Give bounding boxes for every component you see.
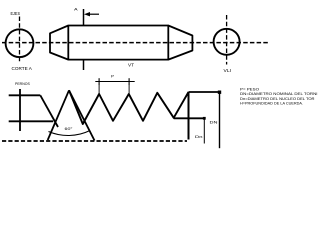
pitch tick right [128, 78, 130, 85]
Dn dimension vertical [203, 118, 205, 143]
centerline vertical through left section circle [19, 17, 21, 64]
DN dimension vertical [219, 92, 221, 148]
crest level line to DN dimension [189, 91, 220, 93]
60 degree angle arc [49, 131, 91, 136]
svg-text:DN: DN [210, 119, 218, 124]
extension to crest right [128, 85, 130, 94]
section line A above body [83, 9, 85, 26]
svg-text:Dn=DIAMETRO DEL NUCLEO DEL TOR: Dn=DIAMETRO DEL NUCLEO DEL TOR [240, 97, 315, 101]
thread profile zigzag [69, 90, 189, 124]
svg-text:A: A [74, 7, 78, 12]
pitch dimension line P [95, 81, 134, 83]
section arrow A [88, 13, 99, 15]
thread crest line (left) [9, 94, 41, 96]
vertical cross mark on bolt [19, 89, 21, 131]
enlarged tooth left flank extended to axis [48, 90, 69, 140]
bottom axis centerline [2, 140, 187, 142]
thread root line (left) [9, 120, 54, 122]
svg-text:VLI: VLI [224, 68, 232, 73]
svg-text:EJES: EJES [11, 11, 21, 16]
pitch tick left [98, 78, 100, 85]
root level line to Dn dimension [174, 117, 205, 119]
enlarged tooth right flank extended to axis [69, 90, 95, 140]
svg-text:VT: VT [128, 63, 134, 68]
extension to crest left [98, 85, 100, 94]
centerline vertical through right circle [226, 15, 228, 65]
section view circle (shaft end, CORTE A) [6, 29, 34, 57]
thread flank from crest to root [40, 95, 58, 127]
svg-text:PERNOS: PERNOS [15, 81, 30, 86]
svg-text:P= PESO: P= PESO [240, 87, 259, 91]
svg-text:DN=DIAMETRO NOMINAL DEL TORNI: DN=DIAMETRO NOMINAL DEL TORNI [240, 92, 318, 96]
thread end face vertical [188, 92, 190, 140]
worm shaft body outline VT [50, 26, 192, 60]
svg-text:Dn: Dn [195, 134, 203, 139]
svg-text:H=PROFUNDIDAD DE LA CUERDA.: H=PROFUNDIDAD DE LA CUERDA. [240, 102, 303, 106]
dot at Dn line top [203, 117, 206, 120]
dot at DN line top [218, 91, 221, 94]
section line A below body [83, 60, 85, 70]
svg-text:CORTE A: CORTE A [12, 66, 33, 71]
svg-text:60°: 60° [65, 127, 74, 131]
end view circle VLI [214, 29, 240, 55]
main horizontal centerline axis [2, 42, 269, 44]
